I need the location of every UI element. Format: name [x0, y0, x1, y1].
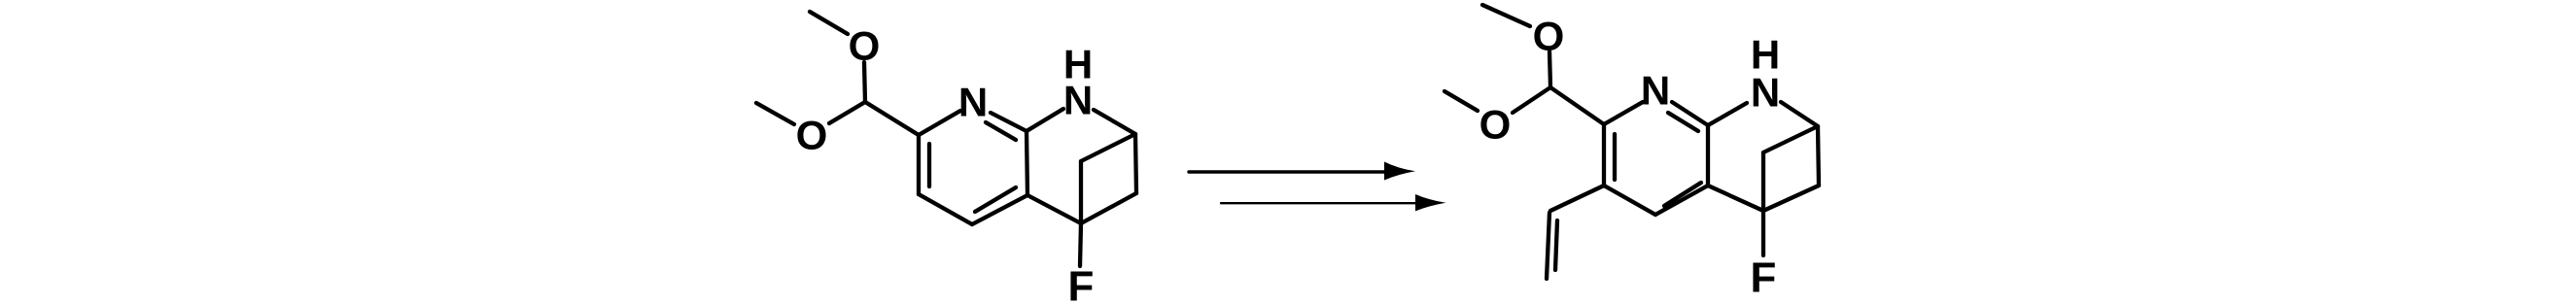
svg-text:F: F — [1068, 263, 1095, 304]
svg-text:F: F — [1751, 254, 1777, 302]
svg-text:N: N — [1641, 67, 1670, 113]
svg-text:H: H — [1751, 31, 1780, 77]
svg-text:N: N — [958, 79, 988, 124]
svg-text:O: O — [849, 22, 881, 68]
svg-text:O: O — [1479, 101, 1512, 147]
svg-text:O: O — [796, 112, 828, 157]
svg-text:O: O — [1533, 13, 1565, 58]
svg-text:H: H — [1063, 41, 1093, 86]
